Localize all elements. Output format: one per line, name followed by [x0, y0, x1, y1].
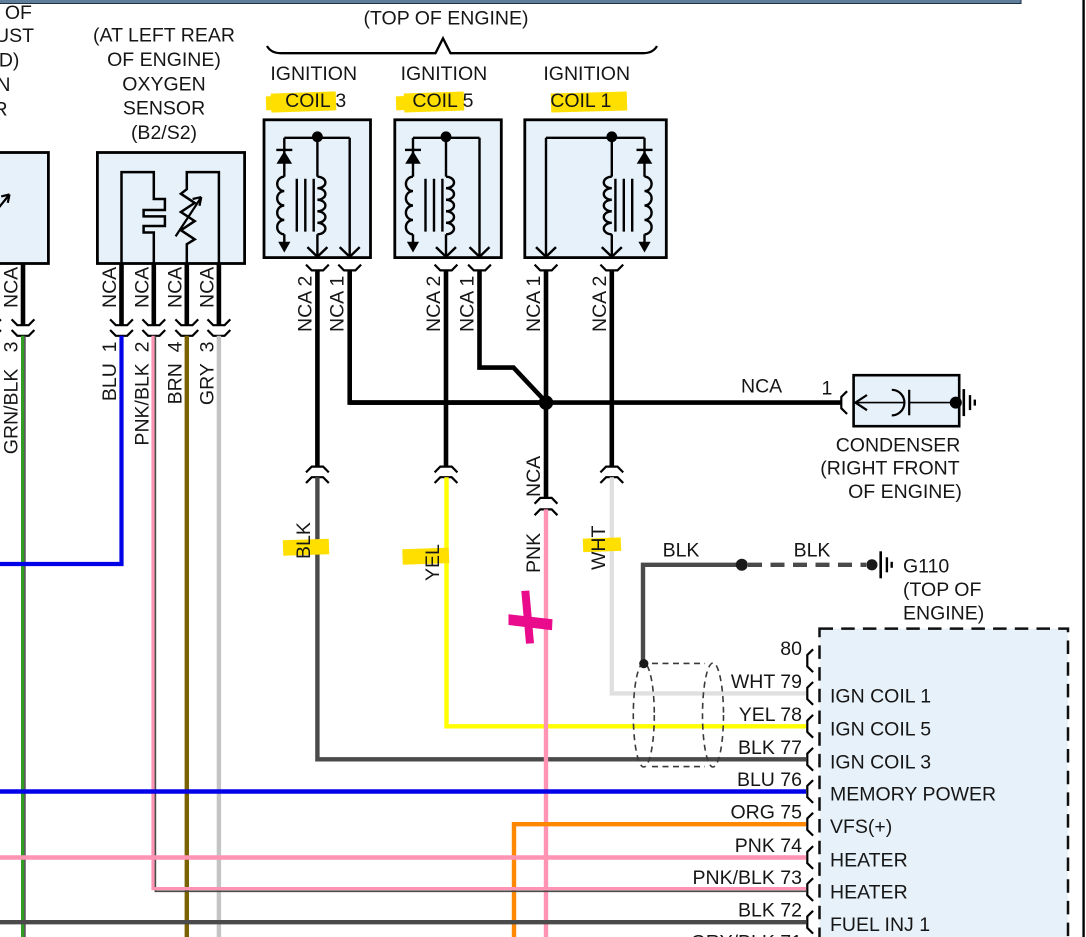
splice dot: [736, 559, 748, 571]
ECM internal labels: [830, 685, 996, 936]
left oxygen sensor (B1/S1) partial text: [0, 2, 34, 121]
wire PNK/BLK 2 vertical, turns right to pin 73: [153, 336, 155, 891]
wire BLK to G110: corner and splice: [643, 565, 737, 663]
wire PNK/BLK heater pin73 horizontal: [153, 889, 806, 892]
svg-text:NCA: NCA: [164, 267, 186, 308]
svg-text:R: R: [0, 98, 8, 120]
main NCA bus wire to condenser: [350, 400, 841, 405]
left sensor pin wire stub: [12, 264, 35, 336]
wire GRN/BLK vertical: [23, 336, 25, 937]
svg-text:NCA: NCA: [99, 267, 121, 308]
wire ORG VFS pin75: [514, 824, 806, 937]
sensing element (variable resistor): [181, 172, 219, 263]
svg-text:IGNITION: IGNITION: [270, 63, 357, 85]
node dot: [312, 131, 323, 142]
wire coil1 NCA1 vertical through junction: [544, 270, 549, 498]
wire PNK heater pin74: [0, 855, 806, 859]
left oxygen sensor (B1/S1) box, cut at left edge: [0, 153, 48, 264]
core: [297, 179, 314, 232]
svg-text:ENGINE): ENGINE): [903, 603, 984, 625]
svg-text:PNK: PNK: [523, 533, 545, 573]
inline connector WHT (coil1): [600, 467, 623, 473]
wire WHT vertical (coil1) to pin79: [612, 477, 806, 693]
spark gap arrow (filled): [283, 234, 285, 246]
svg-text:BLK 77: BLK 77: [738, 737, 802, 759]
svg-text:BLU 1: BLU 1: [99, 342, 121, 402]
condenser pin cup: [841, 391, 847, 414]
coil1 internals (mirrored): [536, 131, 653, 256]
inline connector PNK: [535, 498, 558, 504]
svg-text:FUEL INJ 1: FUEL INJ 1: [830, 914, 930, 936]
svg-text:NCA: NCA: [523, 456, 545, 497]
coil3 internals: [276, 131, 359, 256]
highlight coil 1: [551, 91, 627, 112]
G110 label: [903, 556, 984, 625]
inline connector YEL (coil5): [435, 467, 458, 473]
left branch plain: [545, 138, 547, 257]
wire coil5 NCA1 with diagonal to junction: [480, 270, 547, 402]
wire coil5 NCA2 vertical black: [444, 270, 449, 466]
secondary winding: [316, 137, 318, 177]
svg-text:BLK: BLK: [663, 540, 700, 562]
condenser label: [820, 435, 962, 503]
diode right branch: [643, 138, 645, 177]
svg-text:OF ENGINE): OF ENGINE): [107, 49, 221, 71]
svg-text:1: 1: [822, 377, 833, 399]
ECM pin cups: [807, 649, 813, 933]
junction node: [539, 395, 553, 409]
svg-text:(AT LEFT REAR: (AT LEFT REAR: [93, 25, 235, 47]
svg-text:BLK: BLK: [794, 540, 831, 562]
condenser internals: arrow, capacitor, dot, ground: [855, 389, 975, 416]
highlight coil 5: [396, 91, 465, 112]
svg-text:OF ENGINE): OF ENGINE): [848, 481, 962, 503]
svg-text:NCA 2: NCA 2: [589, 276, 611, 332]
svg-text:(B2/S2): (B2/S2): [131, 122, 197, 144]
svg-text:NCA: NCA: [196, 267, 218, 308]
svg-text:PNK/BLK 2: PNK/BLK 2: [131, 342, 153, 446]
shield oval around coil wires: [633, 663, 723, 767]
svg-text:NCA: NCA: [741, 375, 782, 397]
svg-text:IGNITION: IGNITION: [401, 63, 488, 85]
wire BLU memory power pin76: [0, 789, 806, 793]
wire BLK vertical (coil3) to pin77: [317, 477, 806, 759]
coil3 pin cups: [306, 265, 329, 271]
wire BLU 1 (L-shape to left edge): [0, 336, 122, 564]
primary winding: [277, 177, 284, 235]
variable resistor arrow: [176, 197, 202, 236]
leftmost off-canvas pin cups (partial): [0, 319, 1, 335]
wire YEL vertical (coil5) to pin78: [447, 477, 807, 726]
svg-text:COIL 1: COIL 1: [550, 90, 611, 112]
wire PNK vertical: [544, 509, 548, 937]
highlight coil 3: [266, 91, 337, 112]
dashed BLK to ground: [748, 563, 866, 567]
shield drain dot: [639, 659, 648, 668]
brace over ignition coils: [267, 38, 657, 53]
svg-text:IGN COIL 5: IGN COIL 5: [830, 718, 931, 740]
ground symbol G110: [881, 551, 892, 578]
svg-text:NCA: NCA: [1, 267, 23, 308]
wire coil3 NCA2 vertical black: [315, 270, 320, 466]
magenta splice marker X: [509, 591, 553, 644]
svg-text:PNK 74: PNK 74: [735, 835, 802, 857]
svg-text:MEMORY POWER: MEMORY POWER: [830, 784, 996, 806]
ignition coil 5 box: [395, 120, 502, 258]
svg-text:GRN/BLK 3: GRN/BLK 3: [1, 342, 23, 455]
svg-text:BLK 72: BLK 72: [738, 900, 802, 922]
svg-text:CONDENSER: CONDENSER: [836, 435, 961, 457]
svg-text:NCA 2: NCA 2: [423, 276, 445, 332]
svg-text:GRY/BLK 71: GRY/BLK 71: [691, 931, 802, 937]
top wire: [284, 137, 349, 139]
oxygen sensor (B2/S2) box: [97, 153, 244, 264]
svg-text:(TOP OF ENGINE): (TOP OF ENGINE): [363, 8, 528, 30]
svg-text:WHT 79: WHT 79: [731, 671, 802, 693]
highlight YEL: [402, 548, 449, 565]
ignition coil 3 box: [264, 120, 371, 258]
condenser box: [854, 375, 960, 426]
wire GRY 3 vertical: [217, 336, 221, 937]
svg-text:SENSOR: SENSOR: [123, 98, 205, 120]
NCA labels sensor pins: [99, 267, 218, 308]
svg-text:80: 80: [780, 638, 802, 660]
variable resistor arrow fragment: [0, 195, 10, 217]
ignition coil 1 box: [525, 120, 667, 258]
oxygen sensor (B2/S2) label: [93, 25, 235, 145]
svg-text:IGN COIL 3: IGN COIL 3: [830, 751, 931, 773]
diode D (left branch): [283, 138, 285, 177]
wire coil1 NCA2 vertical black: [609, 270, 614, 466]
heater element: [122, 172, 165, 263]
svg-text:BRN 4: BRN 4: [164, 341, 186, 404]
svg-text:NCA 2: NCA 2: [294, 276, 316, 332]
svg-text:NCA: NCA: [131, 267, 153, 308]
highlight BLK: [283, 539, 330, 556]
svg-text:(RIGHT FRONT: (RIGHT FRONT: [820, 458, 959, 480]
svg-text:T OF: T OF: [0, 2, 32, 24]
svg-text:HEATER: HEATER: [830, 850, 908, 872]
svg-text:IGN COIL 1: IGN COIL 1: [830, 685, 931, 707]
svg-text:(TOP OF: (TOP OF: [903, 579, 981, 601]
svg-text:HEATER: HEATER: [830, 882, 908, 904]
svg-text:YEL: YEL: [422, 544, 444, 581]
coil5 internals: [405, 131, 490, 256]
inline connector BLK (coil3): [306, 467, 329, 473]
coil5 pin cups: [435, 265, 458, 271]
svg-text:PNK/BLK 73: PNK/BLK 73: [693, 867, 802, 889]
svg-text:D): D): [0, 49, 19, 71]
sensor pin stubs + cups: [110, 264, 230, 336]
wire coil3 NCA1 to junction: [350, 270, 546, 402]
wire BLK fuel inj pin72: [0, 920, 806, 924]
svg-text:NCA 1: NCA 1: [523, 276, 545, 332]
svg-text:YEL 78: YEL 78: [739, 704, 802, 726]
svg-text:VFS(+): VFS(+): [830, 816, 892, 838]
svg-text:NCA 1: NCA 1: [457, 276, 479, 332]
ECM module box (dashed): [820, 629, 1069, 937]
svg-text:UST: UST: [0, 25, 34, 47]
svg-text:COIL 3: COIL 3: [285, 90, 346, 112]
coil1 pin cups: [535, 265, 558, 271]
ground dot G110: [866, 559, 877, 570]
svg-text:ORG 75: ORG 75: [730, 802, 802, 824]
right branch: [349, 138, 351, 257]
svg-text:WHT: WHT: [588, 526, 610, 570]
NCA pin labels coils: [294, 276, 610, 332]
svg-text:GRY 3: GRY 3: [196, 342, 218, 406]
svg-text:N: N: [0, 74, 10, 96]
wire BRN 4 vertical: [185, 336, 189, 937]
svg-text:BLK: BLK: [293, 522, 315, 559]
svg-text:G110: G110: [903, 556, 949, 578]
svg-text:BLU 76: BLU 76: [737, 769, 802, 791]
highlight WHT: [583, 537, 621, 552]
svg-text:IGNITION: IGNITION: [543, 63, 630, 85]
svg-text:NCA 1: NCA 1: [327, 276, 349, 332]
svg-text:OXYGEN: OXYGEN: [122, 73, 205, 95]
page frame right border: [1082, 0, 1084, 937]
svg-text:COIL 5: COIL 5: [412, 90, 473, 112]
top toolbar strip: [0, 0, 1021, 4]
